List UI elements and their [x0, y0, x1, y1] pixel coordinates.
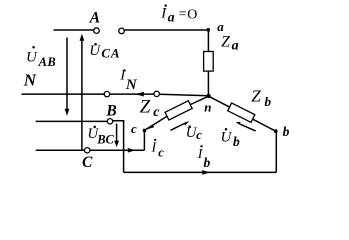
- voltage arrow UAB shaft: [66, 38, 68, 110]
- wire: Za to node n: [207, 71, 209, 96]
- terminal circle A (open switch left): [94, 28, 100, 34]
- svg-text:CA: CA: [101, 46, 120, 61]
- voltage arrowhead Uc (points up-right): [184, 121, 189, 126]
- svg-text:b: b: [204, 155, 211, 170]
- terminal circle B: [107, 119, 112, 124]
- wire: phase C feeder: [36, 149, 85, 151]
- voltage arrowhead UCA (points up): [80, 34, 85, 41]
- terminal circle C: [85, 148, 90, 153]
- svg-text:AB: AB: [38, 55, 57, 69]
- svg-text:a: a: [217, 19, 224, 34]
- svg-text:=: =: [179, 7, 187, 22]
- svg-text:N: N: [125, 77, 138, 93]
- svg-text:c: c: [131, 121, 137, 136]
- terminal circle (open switch right): [119, 28, 125, 34]
- current arrowhead Ic (points right): [128, 148, 136, 153]
- current arrowhead Ib (points right): [202, 170, 210, 175]
- svg-text:c: c: [158, 146, 164, 160]
- svg-text:C: C: [82, 154, 93, 171]
- svg-text:I: I: [151, 140, 158, 155]
- terminal circle on neutral (left): [104, 91, 109, 96]
- wire: phase B feeder: [36, 120, 108, 122]
- svg-text:b: b: [283, 124, 290, 139]
- wire: c stub down to C line: [143, 131, 145, 151]
- svg-text:U: U: [221, 129, 233, 145]
- voltage arrow UCA shaft: [81, 41, 83, 151]
- impedance Za box: [204, 52, 214, 72]
- wire: terminal b to Zb: [253, 119, 276, 131]
- wire: phase A feeder: [54, 29, 94, 31]
- wire: a down to Za: [207, 30, 209, 52]
- svg-text:I: I: [160, 6, 167, 22]
- wire: bottom return rail: [124, 171, 277, 173]
- wire: neutral to node n: [160, 94, 209, 96]
- voltage arrow UBC shaft: [116, 124, 118, 141]
- impedance Zb box (rotated): [228, 103, 255, 122]
- node n (junction dot): [206, 94, 210, 98]
- svg-text:b: b: [265, 94, 272, 109]
- terminal c (junction dot): [143, 129, 146, 132]
- wire: B circle to corner and down: [113, 121, 124, 173]
- svg-text:c: c: [196, 128, 202, 142]
- svg-text:n: n: [204, 100, 211, 115]
- svg-text:U: U: [89, 43, 101, 59]
- svg-text:b: b: [233, 134, 240, 149]
- terminal circle on neutral (right): [154, 91, 159, 96]
- svg-text:N: N: [23, 71, 37, 90]
- impedance Zc box (rotated): [165, 101, 192, 120]
- wire: Zc to terminal c: [145, 116, 167, 130]
- svg-text:B: B: [105, 103, 116, 120]
- terminal a (junction dot): [207, 28, 210, 31]
- wire: riser to terminal b: [275, 131, 277, 172]
- svg-text:O: O: [187, 8, 197, 23]
- svg-text:U: U: [26, 50, 38, 66]
- svg-text:a: a: [232, 38, 239, 53]
- current arrowhead IN (points left): [135, 92, 144, 97]
- wire: Zb to node n: [209, 96, 230, 107]
- voltage arrowhead UBC (points down): [114, 141, 119, 148]
- voltage arrow Ub shaft: [241, 125, 256, 131]
- svg-text:Z: Z: [140, 96, 151, 117]
- svg-text:c: c: [153, 105, 160, 120]
- wire: C line from corner to circle: [90, 149, 144, 151]
- voltage arrowhead Ub (points up-left): [236, 122, 242, 126]
- wire: node n to Zc: [191, 96, 209, 104]
- wire: neutral line left segment: [22, 93, 105, 95]
- svg-text:BC: BC: [96, 132, 114, 146]
- svg-text:Z: Z: [251, 86, 261, 105]
- svg-text:Z: Z: [221, 33, 230, 50]
- voltage arrow Uc shaft: [171, 124, 185, 131]
- svg-text:a: a: [168, 11, 175, 26]
- arrowhead on wire into terminal c: [146, 124, 154, 129]
- terminal b (junction dot): [274, 129, 278, 133]
- voltage arrowhead UAB (points down): [65, 109, 70, 116]
- wire: phase A line to terminal a: [124, 29, 207, 31]
- wire: neutral middle segment: [110, 93, 154, 95]
- svg-text:A: A: [89, 10, 100, 27]
